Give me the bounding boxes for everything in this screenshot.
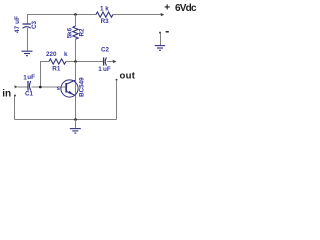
wire emitter ground stem	[75, 120, 77, 129]
svg-text:R1: R1	[52, 65, 61, 72]
svg-text:BC549: BC549	[79, 77, 86, 97]
wire C3 to ground	[27, 28, 29, 51]
ground left	[22, 51, 33, 56]
svg-text:s: s	[57, 85, 61, 92]
wire bottom rail	[15, 119, 117, 121]
svg-text:C2: C2	[101, 46, 110, 53]
wire R2 top stem	[75, 15, 77, 27]
capacitor C2	[104, 57, 107, 65]
svg-text:C1: C1	[25, 91, 34, 98]
ground right	[155, 46, 165, 51]
wire mid R1 to C2	[66, 61, 103, 63]
svg-text:R3: R3	[101, 18, 110, 25]
resistor R3	[96, 12, 113, 17]
wire R2 bottom stem	[75, 39, 77, 61]
svg-text:uF: uF	[103, 66, 111, 73]
svg-text:in: in	[2, 89, 11, 100]
svg-text:uF: uF	[27, 74, 35, 81]
svg-text:47 uF: 47 uF	[14, 16, 21, 33]
capacitor C3	[23, 24, 31, 28]
svg-text:220: 220	[46, 51, 57, 58]
terminal out plus	[113, 60, 117, 63]
node top rail R2 junction	[74, 13, 77, 16]
svg-text:out: out	[120, 70, 136, 81]
wire C1 to base	[32, 86, 66, 88]
resistor R2	[73, 26, 78, 39]
wire out minus down	[116, 80, 118, 119]
terminal in minus	[14, 95, 16, 97]
wire top rail from C3 to R3	[28, 15, 97, 25]
node emitter ground junction	[74, 118, 77, 121]
wire in minus down	[14, 96, 16, 120]
wire R1 left lead and vertical to base	[41, 62, 50, 88]
wire C2 to out terminal	[107, 61, 114, 63]
terminal in plus	[14, 85, 17, 88]
svg-text:C3: C3	[31, 20, 38, 29]
svg-text:1: 1	[98, 66, 102, 73]
capacitor C1	[28, 81, 31, 91]
svg-text:k: k	[64, 51, 68, 58]
resistor R1	[49, 59, 66, 64]
wire collector emitter trunk	[75, 62, 77, 120]
label minus	[166, 31, 169, 33]
svg-text:k: k	[105, 5, 109, 12]
transistor Q1 BC549	[61, 80, 78, 97]
svg-text:+: +	[164, 3, 170, 14]
terminal out minus	[116, 79, 118, 81]
wire in to C1	[18, 86, 28, 88]
wire minus ground stem	[160, 33, 162, 45]
terminal minus node	[159, 32, 161, 34]
svg-text:6Vdc: 6Vdc	[175, 3, 197, 14]
ground bottom	[70, 129, 81, 134]
svg-text:5k6: 5k6	[67, 27, 74, 38]
wire R3 right lead to +6V terminal	[113, 14, 163, 16]
node collector junction	[74, 60, 77, 63]
node base junction	[39, 86, 42, 89]
svg-text:1: 1	[100, 5, 104, 12]
terminal +6V	[161, 13, 165, 16]
svg-text:R2: R2	[79, 28, 86, 37]
